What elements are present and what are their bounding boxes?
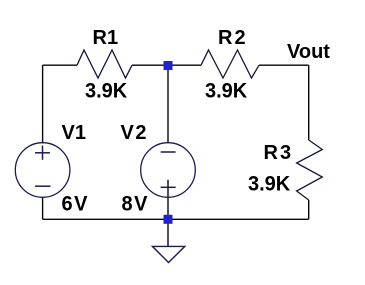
wire right vertical lower [308,200,310,219]
wire node to V2 top [167,65,169,143]
wire V2 plus through bottom to rail [167,180,169,220]
wire left vertical into V1 plus [42,65,44,143]
label 6V [62,192,89,217]
wire right vertical upper [308,65,310,140]
wire bottom rail [43,218,309,220]
node junction bottom (blue square) [164,215,173,224]
V1 minus bar [35,185,51,187]
label R2 [218,27,248,50]
label R3 [264,142,294,165]
ground [152,246,184,262]
wire between R2 and Vout corner [259,64,309,66]
resistor R3 [297,140,323,200]
label 3.9K of R2 [205,79,247,104]
V2 minus bar [161,151,176,153]
voltage source V2 circle [141,143,196,198]
voltage source V1 circle [15,143,70,198]
label 3.9K of R3 [248,172,290,197]
label 3.9K of R1 [85,79,127,104]
resistor R1 [77,50,132,78]
V2 plus sign crossbar [161,186,176,188]
V1 plus sign [35,152,50,154]
wire V1 bottom to bottom rail [42,197,44,219]
label R1 [93,27,119,50]
wire ground stem [167,219,169,246]
resistor R2 [201,50,259,78]
wire top-left horizontal [43,64,77,66]
label Vout [287,41,330,64]
label 8V [122,192,149,217]
label V1 [62,122,86,145]
wire between R1 and R2 [132,64,201,66]
node junction top (blue square) [164,61,173,70]
label V2 [121,122,148,145]
